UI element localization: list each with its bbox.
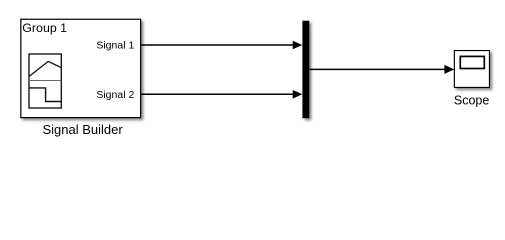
arrowhead W1 xyxy=(293,41,303,50)
arrowhead W3 xyxy=(444,65,454,74)
port label Signal 2 xyxy=(96,89,134,101)
svg-text:Signal Builder: Signal Builder xyxy=(42,122,123,137)
block U1 Signal Builder body xyxy=(21,19,141,117)
svg-text:Scope: Scope xyxy=(454,93,489,107)
wire W3: Mux output to Scope input xyxy=(309,68,445,70)
label Group 1 xyxy=(22,21,67,35)
arrowhead W2 xyxy=(293,90,303,99)
icon waveform 2 (step down) xyxy=(29,88,61,102)
block U2 Mux (black bar) xyxy=(302,21,309,119)
wire W2: Signal 2 output to Mux input 2 xyxy=(141,93,294,95)
icon waveform 1 (triangle wave) xyxy=(29,61,61,76)
port label Signal 1 xyxy=(96,40,134,52)
caption Signal Builder xyxy=(42,122,123,137)
icon divider line xyxy=(29,80,61,82)
block U3 Scope body xyxy=(454,51,489,88)
icon frame (signal builder thumbnail box) xyxy=(29,54,61,108)
svg-text:Signal 1: Signal 1 xyxy=(96,40,134,52)
wire W1: Signal 1 output to Mux input 1 xyxy=(141,44,294,46)
svg-text:Signal 2: Signal 2 xyxy=(96,89,134,101)
caption Scope xyxy=(454,93,489,107)
scope screen rect xyxy=(460,56,484,68)
svg-text:Group 1: Group 1 xyxy=(22,21,67,35)
